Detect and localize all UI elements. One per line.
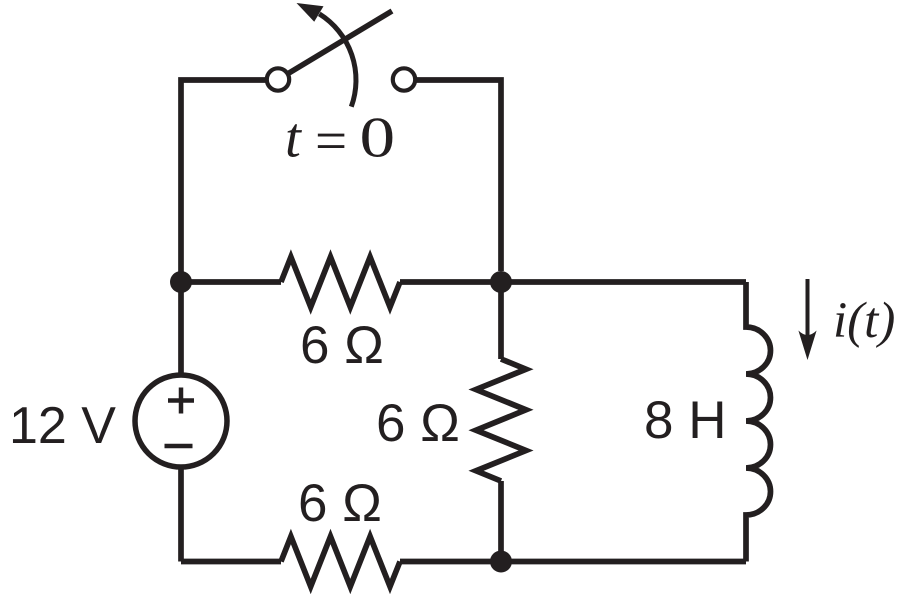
svg-text:8 H: 8 H [644, 391, 726, 450]
svg-text:6 Ω: 6 Ω [376, 394, 460, 453]
svg-text:12 V: 12 V [9, 397, 116, 455]
minus sign of source [165, 444, 193, 449]
wire bottom left [181, 559, 281, 565]
resistor R1 6ohm top zigzag [281, 257, 400, 307]
voltage source V1 12V circle [135, 375, 227, 467]
node A left junction [170, 271, 192, 293]
wire top right segment [417, 80, 502, 271]
svg-text:6 Ω: 6 Ω [298, 474, 382, 533]
resistor R3 6ohm bottom zigzag [281, 537, 400, 587]
switch opening arc [319, 14, 356, 107]
switch arc arrowhead [297, 3, 324, 22]
wire bottom right [400, 559, 746, 565]
plus sign of source [168, 388, 194, 414]
wire middle horizontal right [400, 279, 746, 285]
wire left rail between node and source [178, 282, 184, 376]
current arrow i(t) head [798, 331, 816, 361]
svg-text:6 Ω: 6 Ω [300, 316, 384, 375]
node B middle junction [490, 271, 512, 293]
current arrow i(t) shaft [806, 279, 810, 342]
wire middle vertical upper [498, 282, 504, 359]
svg-text:i(t): i(t) [833, 293, 895, 349]
node C bottom junction [490, 551, 512, 573]
switch SW1 blade [289, 11, 392, 73]
switch SW1 left contact [267, 68, 289, 90]
inductor L1 8H coil [746, 282, 771, 562]
wire middle horizontal left [181, 279, 281, 285]
svg-text:0: 0 [360, 106, 396, 169]
resistor R2 6ohm middle zigzag [476, 359, 526, 481]
svg-text:=: = [315, 110, 347, 173]
svg-text:t: t [285, 107, 302, 170]
wire left rail source to bottom [178, 467, 184, 562]
wire left rail top [181, 80, 266, 282]
switch SW1 right contact [393, 68, 415, 90]
wire middle vertical lower [498, 481, 504, 562]
